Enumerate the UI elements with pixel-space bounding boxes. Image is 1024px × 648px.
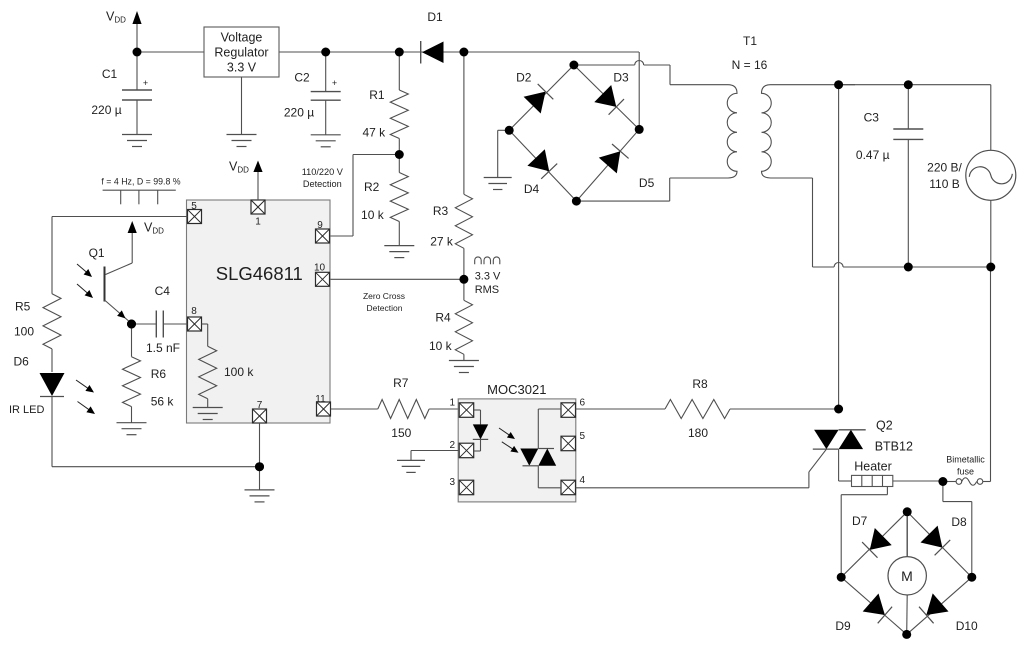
- svg-text:N = 16: N = 16: [732, 58, 768, 72]
- svg-text:Bimetallic: Bimetallic: [946, 454, 985, 464]
- svg-text:D4: D4: [524, 182, 540, 196]
- svg-text:1: 1: [255, 217, 261, 228]
- svg-text:+: +: [143, 78, 148, 88]
- svg-text:D6: D6: [14, 355, 30, 369]
- svg-text:D7: D7: [852, 514, 868, 528]
- svg-text:BTB12: BTB12: [875, 440, 913, 454]
- svg-text:C1: C1: [102, 67, 118, 81]
- svg-text:R1: R1: [369, 88, 385, 102]
- svg-text:IR LED: IR LED: [9, 404, 45, 416]
- svg-text:R4: R4: [435, 311, 451, 325]
- svg-text:D9: D9: [835, 619, 851, 633]
- svg-text:5: 5: [580, 431, 586, 442]
- svg-text:R6: R6: [151, 367, 167, 381]
- svg-text:fuse: fuse: [957, 467, 974, 477]
- svg-text:9: 9: [317, 220, 323, 231]
- svg-text:10 k: 10 k: [429, 339, 453, 353]
- svg-text:6: 6: [580, 398, 586, 409]
- svg-text:220 µ: 220 µ: [284, 106, 314, 120]
- svg-text:MOC3021: MOC3021: [487, 382, 546, 397]
- svg-text:27 k: 27 k: [430, 234, 454, 248]
- svg-text:Heater: Heater: [854, 459, 892, 473]
- svg-text:M: M: [901, 568, 913, 584]
- svg-text:D10: D10: [956, 619, 978, 633]
- svg-text:C2: C2: [294, 71, 310, 85]
- svg-text:Detection: Detection: [303, 179, 342, 189]
- svg-text:C3: C3: [864, 111, 880, 125]
- svg-text:Detection: Detection: [367, 303, 403, 313]
- svg-text:3: 3: [449, 477, 455, 488]
- svg-text:f = 4 Hz, D = 99.8 %: f = 4 Hz, D = 99.8 %: [101, 177, 180, 187]
- svg-text:3.3 V: 3.3 V: [227, 61, 257, 75]
- svg-text:47 k: 47 k: [362, 125, 386, 139]
- svg-text:VDD: VDD: [106, 10, 126, 25]
- svg-text:D3: D3: [613, 71, 629, 85]
- svg-text:Q2: Q2: [876, 418, 893, 432]
- svg-text:VDD: VDD: [229, 160, 249, 175]
- svg-text:Voltage: Voltage: [221, 31, 263, 45]
- svg-text:R2: R2: [364, 180, 380, 194]
- svg-text:D2: D2: [516, 71, 532, 85]
- svg-text:100 k: 100 k: [224, 365, 254, 379]
- svg-text:4: 4: [580, 475, 586, 486]
- svg-text:100: 100: [14, 325, 34, 339]
- svg-text:150: 150: [391, 426, 411, 440]
- svg-text:D8: D8: [951, 515, 967, 529]
- svg-text:110 B: 110 B: [929, 177, 959, 191]
- svg-text:Zero Cross: Zero Cross: [363, 291, 405, 301]
- svg-text:10 k: 10 k: [361, 208, 385, 222]
- svg-text:Regulator: Regulator: [214, 46, 268, 60]
- svg-text:R8: R8: [692, 377, 708, 391]
- svg-text:3.3 V: 3.3 V: [475, 270, 501, 282]
- svg-text:RMS: RMS: [475, 284, 499, 296]
- svg-text:Q1: Q1: [89, 246, 105, 260]
- svg-text:0.47 µ: 0.47 µ: [856, 148, 890, 162]
- svg-text:180: 180: [688, 426, 708, 440]
- svg-text:1.5 nF: 1.5 nF: [146, 341, 180, 355]
- svg-text:D5: D5: [639, 176, 655, 190]
- svg-text:8: 8: [191, 306, 197, 317]
- svg-text:SLG46811: SLG46811: [216, 263, 303, 284]
- svg-text:R7: R7: [393, 376, 409, 390]
- svg-text:56 k: 56 k: [151, 395, 175, 409]
- svg-text:T1: T1: [743, 34, 757, 48]
- svg-text:R5: R5: [15, 300, 31, 314]
- svg-text:220 B/: 220 B/: [927, 161, 962, 175]
- svg-text:VDD: VDD: [144, 221, 164, 236]
- svg-text:C4: C4: [155, 284, 171, 298]
- svg-text:7: 7: [257, 400, 263, 411]
- svg-text:11: 11: [315, 394, 326, 405]
- svg-text:5: 5: [191, 201, 197, 212]
- svg-text:+: +: [332, 78, 337, 88]
- svg-text:R3: R3: [433, 204, 449, 218]
- svg-text:1: 1: [449, 398, 455, 409]
- svg-text:D1: D1: [427, 10, 443, 24]
- svg-text:110/220 V: 110/220 V: [302, 167, 344, 177]
- svg-text:10: 10: [314, 263, 326, 274]
- svg-text:220 µ: 220 µ: [91, 103, 121, 117]
- svg-text:2: 2: [449, 440, 455, 451]
